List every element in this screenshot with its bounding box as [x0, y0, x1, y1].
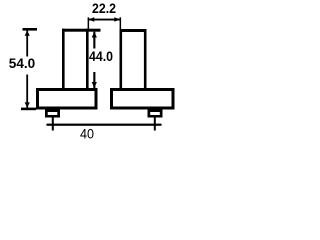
- dimension 22.2 line: [88, 19, 120, 21]
- svg-text:54.0: 54.0: [9, 56, 36, 71]
- label 44.0: [89, 49, 114, 73]
- dimension 44.0 down arrow: [92, 82, 97, 88]
- dimension 54.0 line: [26, 30, 28, 108]
- dimension 22.2 left extension line: [88, 17, 90, 29]
- label 54.0: [6, 56, 36, 75]
- right terminal foot: [148, 110, 163, 118]
- 44.0 top reference bar: [89, 29, 101, 32]
- dimension 40 left tick: [52, 118, 54, 131]
- right clip column: [120, 29, 147, 88]
- dimension 54.0 top tick: [23, 28, 38, 31]
- dimension 22.2 right arrow: [114, 17, 120, 22]
- dimension 44.0 line: [93, 32, 95, 88]
- left base block: [36, 88, 98, 110]
- dimension 40 line: [47, 124, 162, 126]
- svg-text:22.2: 22.2: [92, 1, 116, 16]
- dimension 22.2 left arrow: [88, 17, 94, 22]
- dimension 54.0 up arrow: [25, 31, 30, 36]
- dimension 54.0 bottom tick: [21, 108, 36, 111]
- dimension 54.0 down arrow: [25, 102, 30, 107]
- dimension 44.0 up arrow: [92, 32, 97, 38]
- svg-text:40: 40: [80, 126, 94, 141]
- dimension 40 right tick: [154, 118, 156, 131]
- svg-text:44.0: 44.0: [89, 49, 113, 64]
- left terminal foot: [45, 110, 60, 118]
- left clip column: [62, 29, 89, 88]
- right base block: [110, 88, 175, 110]
- dimension 22.2 right extension line: [120, 17, 122, 29]
